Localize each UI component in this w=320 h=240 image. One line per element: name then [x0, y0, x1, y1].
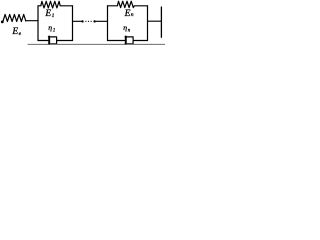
svg-text:1: 1 [52, 13, 55, 19]
svg-text:1: 1 [53, 28, 55, 33]
svg-text:E: E [124, 9, 131, 19]
svg-text:E: E [11, 27, 18, 37]
svg-text:E: E [44, 9, 51, 19]
svg-text:η: η [123, 23, 127, 32]
svg-text:η: η [48, 23, 52, 32]
svg-text:n: n [131, 12, 134, 18]
